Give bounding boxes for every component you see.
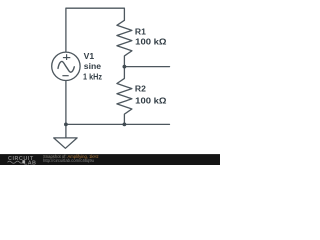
footer logo block (22, 160, 24, 163)
svg-text:sine: sine (84, 61, 101, 71)
node junction dot R2/ground rail (123, 123, 127, 127)
svg-text:R1: R1 (135, 27, 146, 37)
svg-text:V1: V1 (84, 51, 95, 61)
wire ground stub (65, 124, 67, 137)
svg-text:http://circuitlab.com/c46q9u: http://circuitlab.com/c46q9u (43, 158, 95, 163)
svg-text:1 kHz: 1 kHz (83, 72, 102, 82)
footer watermark bar (0, 154, 220, 165)
wire V1 bottom to ground rail (65, 81, 67, 125)
footer CircuitLab logo (8, 156, 36, 166)
footer logo squiggle (8, 161, 23, 163)
V1 plus sign (63, 57, 70, 59)
resistor R1 (117, 20, 132, 66)
wire middle output (124, 66, 169, 68)
resistor R2 (117, 67, 132, 125)
wire bottom rail (66, 123, 170, 125)
V1 sine glyph (58, 61, 74, 72)
wire top rail from V1 top to R1 top (66, 8, 125, 52)
ground (54, 138, 77, 148)
node junction dot V1/ground (64, 123, 68, 127)
svg-text:100 kΩ: 100 kΩ (135, 37, 166, 47)
svg-text:R2: R2 (135, 84, 146, 94)
svg-text:LAB: LAB (24, 160, 36, 165)
voltage source V1 circle (52, 52, 80, 80)
V1 minus sign (62, 75, 68, 77)
svg-text:100 kΩ: 100 kΩ (135, 96, 166, 106)
node junction dot R1/R2 (123, 65, 127, 69)
